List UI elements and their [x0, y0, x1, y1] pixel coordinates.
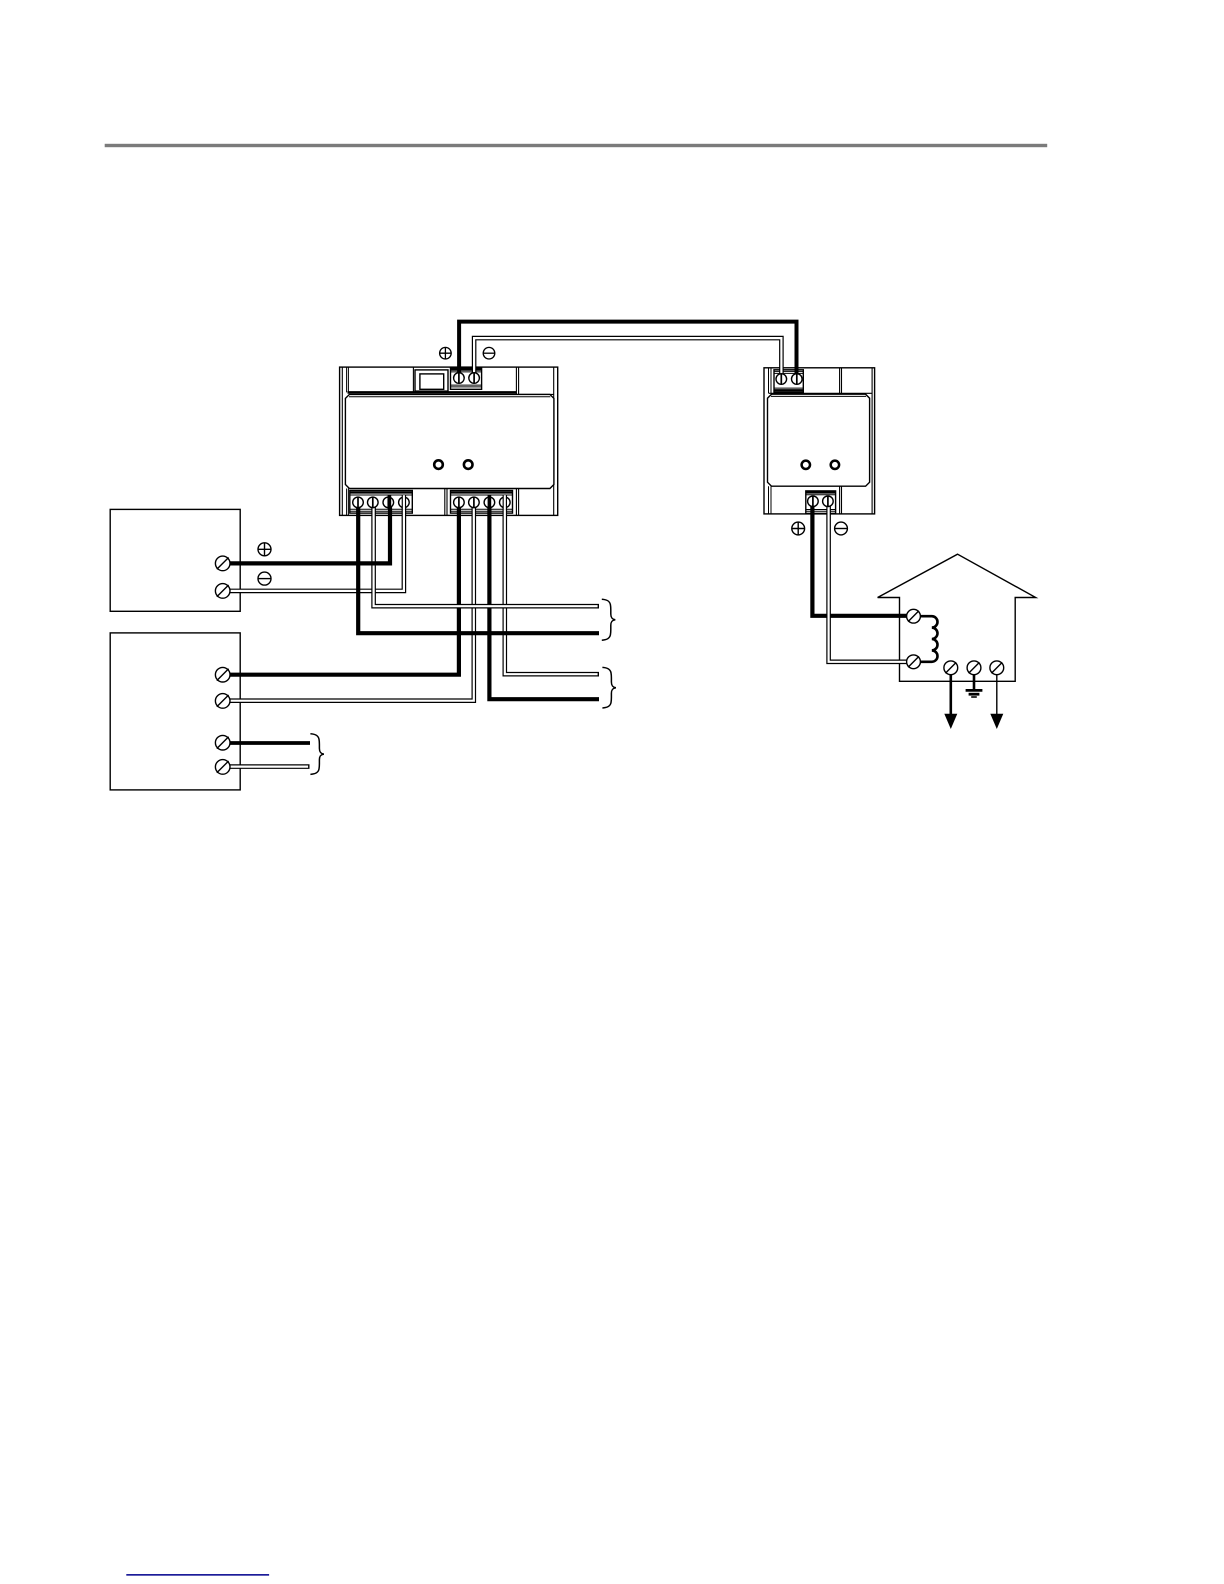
U2 bottom band dividers	[769, 486, 842, 514]
U1 body	[345, 394, 554, 488]
label plus circle at U2 bottom	[792, 522, 805, 535]
coil L1 (matching inductor)	[920, 616, 937, 662]
wire over screw4 of U1 bottom-left block	[402, 495, 406, 509]
wire over screw4 of U1 bottom-right block	[503, 495, 507, 509]
U1 bottom-right block screws 1-4	[454, 497, 511, 508]
wire box1 minus to U1 bottom-left screw4 (white)	[229, 500, 404, 591]
wire U2 output plus to house terminal (black)	[812, 506, 908, 616]
wire stub box2 terminal3 (black)	[229, 741, 310, 745]
wire box1 plus to U1 bottom-left screw3 (black)	[229, 500, 390, 563]
box B2 screw terminals	[215, 667, 230, 774]
box B2 (control unit)	[110, 633, 240, 790]
U2 bottom terminal block (output +/-)	[806, 491, 836, 514]
wire U1 bottom-left screw2 to brace group 1 (white)	[374, 500, 599, 606]
module U1 (left DIN-rail device)	[340, 367, 558, 515]
U2 body	[768, 394, 870, 486]
house screw terminals	[907, 609, 1004, 674]
header rule	[105, 144, 1047, 147]
U2 LED indicators	[802, 461, 840, 469]
house (antenna outlet symbol)	[878, 554, 1036, 681]
U1 LED indicators	[434, 460, 472, 469]
U1 bottom-right terminal block	[451, 491, 513, 514]
label minus circle at box B1	[258, 572, 271, 585]
wire U2 output minus to house terminal (white)	[829, 506, 908, 662]
footer link rule	[126, 1574, 269, 1576]
wire box2 terminal1 to U1 bottom-right screw1 (black)	[229, 500, 459, 675]
arrow to antenna output 1	[944, 675, 957, 729]
label plus circle at U1 top	[440, 347, 452, 359]
label minus circle at U1 top	[483, 347, 495, 359]
arrow to antenna output 2	[990, 675, 1003, 729]
wire U1 bottom-right screw3 to brace group 2 (black)	[489, 500, 599, 699]
wire stub box2 terminal4 (white)	[229, 764, 309, 769]
U1 top terminal block (bus +/-)	[451, 368, 482, 390]
wire U1 bottom-left screw1 to brace group 1 (black)	[358, 500, 599, 633]
U1 programming button	[415, 370, 448, 391]
label plus circle at box B1	[258, 543, 271, 556]
wire box2 terminal2 to U1 bottom-right screw2 (white)	[229, 500, 474, 701]
wire over screw3 of U1 bottom-left block	[388, 495, 392, 509]
brace group 1	[602, 599, 616, 640]
wire over screw3 of U1 bottom-right block	[488, 495, 492, 509]
U2 top terminal block (bus +/-)	[774, 370, 803, 393]
brace group 2	[602, 667, 616, 708]
U1 bottom-left block screws 1-4	[353, 497, 410, 508]
wire bus minus U1 top to U2 top (white)	[474, 338, 781, 374]
box B1 (power supply)	[110, 509, 240, 611]
U1 bottom band dividers	[347, 489, 519, 516]
U1 top block screws	[454, 373, 480, 384]
module U2 (right DIN-rail device)	[764, 368, 875, 514]
U2 top block screws	[776, 374, 802, 385]
brace at box B2 stubs	[310, 734, 324, 775]
U2 bottom block screws	[808, 496, 834, 507]
label minus circle at U2 bottom	[835, 522, 848, 535]
wire bus plus U1 top to U2 top (black)	[459, 322, 796, 375]
box B1 screw terminals	[215, 556, 230, 598]
U1 bottom-left terminal block	[350, 491, 413, 514]
wire U1 bottom-right screw4 to brace group 2 (white)	[505, 500, 599, 674]
ground symbol	[966, 675, 983, 697]
